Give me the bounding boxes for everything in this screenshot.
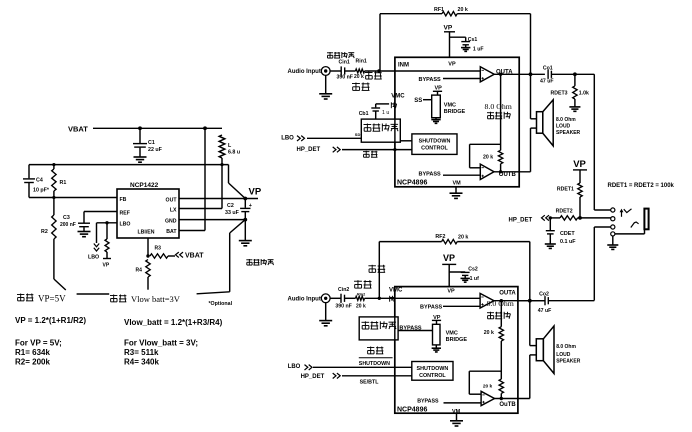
svg-text:BYPASS: BYPASS [417, 398, 439, 404]
svg-text:20 k: 20 k [356, 303, 366, 309]
svg-text:SD: SD [355, 132, 361, 137]
svg-text:Audio Input: Audio Input [288, 296, 321, 302]
svg-text:OuTB: OuTB [499, 402, 516, 408]
svg-text:NCP4896: NCP4896 [397, 406, 427, 413]
svg-text:INM: INM [398, 63, 409, 69]
svg-text:LOUD: LOUD [556, 352, 571, 358]
svg-text:R4= 340k: R4= 340k [124, 358, 159, 367]
svg-text:Co1: Co1 [543, 65, 553, 71]
svg-text:22 uF: 22 uF [148, 147, 163, 153]
svg-text:REF: REF [120, 210, 130, 216]
svg-text:BAT: BAT [166, 229, 177, 235]
svg-text:SHUTDOWN: SHUTDOWN [419, 138, 451, 144]
svg-text:CDET: CDET [560, 231, 575, 237]
svg-text:VP: VP [103, 263, 110, 269]
svg-text:C1: C1 [148, 140, 155, 146]
svg-text:SS: SS [414, 98, 422, 104]
svg-text:1 u: 1 u [382, 110, 389, 116]
svg-text:R3= 511k: R3= 511k [124, 348, 159, 357]
svg-text:0.1 uF: 0.1 uF [560, 239, 576, 245]
svg-text:VP: VP [448, 61, 456, 67]
svg-text:RDET2: RDET2 [556, 209, 573, 215]
svg-text:C4: C4 [36, 178, 43, 184]
svg-text:VM: VM [453, 180, 462, 186]
svg-text:R2: R2 [41, 229, 48, 235]
svg-text:RDET3: RDET3 [551, 90, 568, 96]
svg-text:OUT: OUT [166, 197, 178, 203]
svg-text:VP: VP [249, 187, 262, 198]
svg-text:Vlow batt=3V: Vlow batt=3V [131, 294, 181, 304]
svg-text:SE/BTL: SE/BTL [360, 380, 380, 386]
svg-text:47 uF: 47 uF [540, 79, 554, 85]
svg-text:VP: VP [447, 288, 455, 294]
svg-text:20 k: 20 k [458, 234, 468, 240]
svg-text:CONTROL: CONTROL [419, 373, 446, 379]
svg-text:LX: LX [170, 207, 177, 213]
svg-text:BRIDGE: BRIDGE [444, 109, 466, 115]
svg-text:Rin2: Rin2 [357, 292, 365, 296]
svg-text:RDET1 = RDET2 = 100k: RDET1 = RDET2 = 100k [608, 183, 675, 189]
svg-text:SHUTDOWN: SHUTDOWN [359, 361, 390, 367]
svg-text:C3: C3 [63, 215, 70, 221]
svg-text:RF1: RF1 [434, 7, 444, 13]
svg-text:Cs2: Cs2 [468, 266, 478, 272]
svg-text:VMC: VMC [389, 288, 403, 294]
svg-text:VP = 1.2*(1+R1/R2): VP = 1.2*(1+R1/R2) [15, 316, 86, 325]
svg-text:BYPASS: BYPASS [419, 77, 442, 83]
svg-text:NCP4896: NCP4896 [397, 180, 427, 187]
svg-text:LBO: LBO [281, 136, 294, 142]
svg-text:8.0 Ohm: 8.0 Ohm [556, 344, 576, 350]
svg-text:BRIDGE: BRIDGE [446, 337, 468, 343]
svg-text:390 nF: 390 nF [335, 303, 351, 309]
svg-text:R1: R1 [60, 180, 67, 186]
svg-text:RDET1: RDET1 [557, 186, 574, 192]
svg-text:390 nF: 390 nF [337, 74, 353, 80]
svg-text:BYPASS: BYPASS [399, 326, 422, 332]
svg-text:SPEAKER: SPEAKER [556, 359, 581, 365]
svg-text:VBAT: VBAT [68, 125, 88, 134]
svg-text:HP_DET: HP_DET [509, 217, 533, 223]
svg-text:R1= 634k: R1= 634k [15, 348, 50, 357]
svg-text:VP: VP [573, 159, 586, 170]
svg-text:*Optional: *Optional [209, 301, 233, 307]
svg-text:C2: C2 [227, 203, 234, 209]
svg-text:VMC: VMC [444, 103, 456, 109]
svg-text:R3: R3 [155, 246, 162, 252]
svg-text:For VP = 5V;: For VP = 5V; [15, 339, 62, 348]
svg-text:8.0 Ohm: 8.0 Ohm [485, 102, 512, 111]
svg-text:20 k: 20 k [483, 384, 493, 390]
svg-text:LOUD: LOUD [556, 124, 571, 130]
svg-text:VMC: VMC [391, 94, 405, 100]
svg-text:VBAT: VBAT [185, 253, 204, 260]
svg-text:For Vlow_batt = 3V;: For Vlow_batt = 3V; [124, 339, 198, 348]
svg-text:VP: VP [444, 25, 453, 32]
svg-text:Audio Input: Audio Input [288, 69, 321, 75]
svg-text:LBO: LBO [120, 222, 131, 228]
svg-text:1 uF: 1 uF [473, 46, 484, 52]
svg-text:LBO: LBO [88, 255, 99, 261]
svg-text:CONTROL: CONTROL [421, 145, 448, 151]
svg-text:HP_DET: HP_DET [301, 374, 325, 380]
svg-text:33 uF: 33 uF [225, 210, 240, 216]
svg-text:10 pF*: 10 pF* [33, 188, 50, 194]
svg-text:Cb1: Cb1 [359, 111, 369, 117]
svg-text:20 k: 20 k [458, 7, 468, 13]
svg-text:R2= 200k: R2= 200k [15, 358, 50, 367]
svg-text:LBI/EN: LBI/EN [138, 229, 155, 235]
svg-text:20 k: 20 k [484, 330, 494, 336]
svg-text:Rin1: Rin1 [356, 59, 367, 65]
svg-text:RF2: RF2 [435, 234, 445, 240]
svg-text:20 k: 20 k [483, 154, 493, 160]
svg-text:LBO: LBO [288, 364, 301, 370]
svg-text:HP_DET: HP_DET [297, 147, 321, 153]
svg-text:20 k: 20 k [354, 74, 364, 80]
svg-text:1.0k: 1.0k [579, 90, 589, 96]
svg-text:1 uf: 1 uf [470, 276, 479, 282]
svg-text:OUTA: OUTA [499, 291, 516, 297]
svg-text:8.0 Ohm: 8.0 Ohm [556, 117, 576, 123]
svg-text:+: + [249, 203, 252, 209]
svg-text:Co2: Co2 [539, 291, 549, 297]
svg-text:VMC: VMC [446, 330, 458, 336]
svg-text:Cs1: Cs1 [468, 37, 478, 43]
svg-text:BYPASS: BYPASS [419, 172, 442, 178]
svg-text:SPEAKER: SPEAKER [556, 130, 581, 136]
svg-text:BYPASS: BYPASS [420, 305, 443, 311]
svg-text:GND: GND [165, 219, 177, 225]
svg-text:OUTB: OUTB [499, 172, 517, 178]
svg-text:R4: R4 [136, 268, 143, 274]
svg-text:VP: VP [443, 253, 455, 263]
svg-text:FB: FB [120, 197, 127, 203]
svg-text:47 uF: 47 uF [538, 308, 552, 314]
svg-text:Cin2: Cin2 [338, 287, 349, 293]
svg-text:200 nF: 200 nF [60, 222, 76, 228]
svg-text:Cin1: Cin1 [339, 60, 350, 66]
svg-text:SHUTDOWN: SHUTDOWN [417, 366, 449, 372]
svg-text:Vlow_batt = 1.2*(1+R3/R4): Vlow_batt = 1.2*(1+R3/R4) [124, 318, 223, 327]
svg-text:6.8 u: 6.8 u [228, 150, 240, 156]
svg-text:NCP1422: NCP1422 [130, 182, 159, 189]
svg-text:VP=5V: VP=5V [38, 294, 66, 304]
